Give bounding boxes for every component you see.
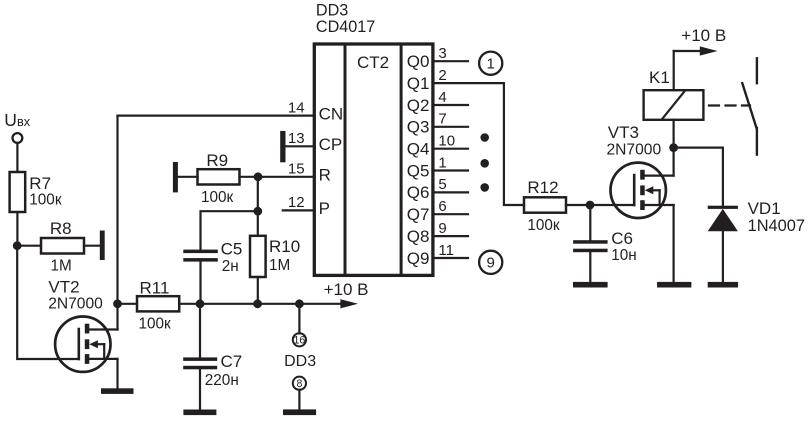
- node D junction R12/C6/VT3 gate: [586, 201, 595, 210]
- svg-text:VT3: VT3: [608, 123, 639, 142]
- wire VT3 source to ground: [672, 205, 674, 282]
- wire pin16 drop: [298, 304, 300, 334]
- node Uвх input terminal: [13, 133, 23, 143]
- svg-text:6: 6: [438, 198, 446, 215]
- svg-text:R12: R12: [527, 178, 558, 197]
- resistor R10: [250, 236, 266, 277]
- svg-text:VT2: VT2: [48, 277, 79, 296]
- ground under C6: [573, 282, 608, 288]
- resistor R11: [137, 296, 179, 311]
- svg-text:CN: CN: [319, 105, 344, 124]
- svg-text:1М: 1М: [269, 257, 290, 274]
- capacitor C5: [183, 250, 218, 254]
- svg-text:7: 7: [438, 111, 446, 128]
- svg-text:1М: 1М: [51, 258, 72, 275]
- svg-text:Uвх: Uвх: [4, 110, 30, 130]
- svg-text:C6: C6: [611, 229, 633, 248]
- wire node A down to VT2 gate: [17, 246, 79, 359]
- svg-text:Q6: Q6: [407, 183, 430, 202]
- relay K1 coil: [644, 90, 704, 120]
- resistor R8: [41, 238, 84, 254]
- svg-text:Q8: Q8: [407, 227, 430, 246]
- wire node D to VT3 gate: [590, 204, 634, 206]
- ground under VT2: [101, 388, 134, 394]
- svg-text:+10 В: +10 В: [681, 26, 726, 45]
- wire R10 to rail: [257, 277, 259, 304]
- node C junction C5/R10: [253, 207, 262, 216]
- wire node C to R10: [257, 211, 259, 236]
- node C5/C7 rail junction: [196, 299, 205, 308]
- wire Q5 stub pin 1: [434, 169, 468, 171]
- wire node B to IC pin 15: [258, 176, 313, 178]
- node A junction R7/R8/gate: [13, 241, 22, 250]
- wire R8 to stub bar: [84, 245, 100, 247]
- svg-text:R7: R7: [29, 174, 51, 193]
- svg-text:2н: 2н: [222, 258, 239, 275]
- svg-text:CT2: CT2: [357, 53, 389, 72]
- wire rail to R10 node: [200, 303, 258, 305]
- terminator bar at pin 13: [280, 131, 285, 162]
- svg-text:100к: 100к: [29, 191, 62, 208]
- wire pin 12 P stub: [283, 209, 313, 211]
- wire Q7 stub pin 6: [434, 213, 468, 215]
- wire junction to R11: [118, 303, 138, 305]
- node drain/R11 junction: [113, 299, 122, 308]
- +10 V supply arrow (left): [299, 303, 342, 305]
- ground under VD1: [708, 282, 738, 288]
- wire rail to +10V node: [258, 303, 300, 305]
- ground under VT3: [657, 282, 691, 288]
- wire Q0 stub pin 3: [434, 60, 468, 62]
- ground under C7: [183, 410, 216, 416]
- wire node A to R8: [17, 245, 41, 247]
- wire pin8 to ground: [298, 390, 300, 410]
- svg-text:R10: R10: [269, 237, 300, 256]
- wire node to VD1: [674, 148, 723, 206]
- pin 16 circle: [293, 333, 306, 346]
- wire Q9 stub pin 11: [434, 257, 468, 259]
- svg-text:Q7: Q7: [407, 205, 430, 224]
- wire Q2 stub pin 4: [434, 104, 468, 106]
- transistor VT2 2N7000: [55, 317, 117, 372]
- node R10 bottom junction: [253, 299, 262, 308]
- continuation dots: [480, 133, 489, 142]
- wire Q4 stub pin 10: [434, 148, 468, 150]
- svg-text:100к: 100к: [527, 217, 560, 234]
- wire R7 to node A: [16, 212, 18, 246]
- resistor R12: [524, 197, 566, 212]
- svg-text:10н: 10н: [611, 247, 636, 264]
- svg-text:11: 11: [438, 242, 454, 259]
- svg-text:2N7000: 2N7000: [48, 296, 103, 313]
- wire Q3 stub pin 7: [434, 126, 468, 128]
- IC U-DD3 CD4017 counter box: [314, 44, 433, 275]
- svg-text:1: 1: [438, 154, 446, 171]
- +10 V supply arrow (right): [674, 50, 701, 52]
- node output circle 1: [479, 52, 502, 75]
- terminator bar at R8: [100, 231, 105, 261]
- svg-text:C5: C5: [221, 239, 243, 258]
- svg-text:Q4: Q4: [407, 140, 430, 159]
- svg-text:1N4007: 1N4007: [748, 217, 805, 235]
- svg-text:Q0: Q0: [407, 52, 430, 71]
- svg-text:P: P: [319, 199, 330, 218]
- node relay/diode junction: [669, 143, 678, 152]
- svg-text:Q9: Q9: [407, 249, 430, 268]
- svg-text:Q5: Q5: [407, 161, 430, 180]
- node +10V / pin16 junction: [295, 299, 304, 308]
- wire node to relay K1: [672, 120, 674, 148]
- wire node C to C5: [201, 211, 258, 250]
- svg-text:14: 14: [288, 99, 305, 116]
- dashed link relay to contact: [705, 104, 751, 106]
- wire C5 to rail: [199, 261, 201, 303]
- svg-text:R11: R11: [140, 279, 170, 298]
- svg-text:Q3: Q3: [407, 118, 430, 137]
- pin 8 circle: [293, 377, 306, 390]
- svg-text:2N7000: 2N7000: [607, 141, 662, 158]
- wire R9 to node B: [240, 176, 259, 178]
- svg-text:100к: 100к: [201, 189, 234, 206]
- svg-text:Q1: Q1: [407, 74, 430, 93]
- svg-text:DD3: DD3: [284, 353, 316, 370]
- wire Q6 stub pin 5: [434, 191, 468, 193]
- svg-text:CD4017: CD4017: [316, 18, 375, 36]
- wire Q1 pin 2 to R12: [434, 83, 524, 205]
- ground under pin 8: [283, 409, 316, 415]
- capacitor C6: [589, 205, 591, 241]
- svg-text:R: R: [319, 165, 331, 184]
- wire pin 14 CN: [118, 114, 314, 116]
- resistor R7: [10, 172, 26, 212]
- diode VD1 1N4007: [708, 206, 738, 209]
- svg-text:VD1: VD1: [748, 199, 781, 218]
- wire bar to R9: [178, 176, 198, 178]
- svg-text:R9: R9: [206, 151, 228, 170]
- resistor R9: [198, 169, 240, 184]
- svg-text:4: 4: [438, 89, 446, 106]
- svg-text:3: 3: [438, 45, 446, 62]
- wire R12 to node D: [566, 204, 590, 206]
- wire R11 to C5/C7 node: [179, 303, 200, 305]
- relay contact switch: [756, 58, 758, 83]
- transistor VT3 2N7000: [611, 163, 674, 218]
- svg-text:10: 10: [438, 133, 455, 150]
- svg-text:15: 15: [288, 161, 305, 178]
- wire VT2 drain up to pin 14 line: [116, 116, 118, 330]
- wire Uвх to R7: [16, 143, 18, 172]
- wire node B down to node C: [257, 177, 259, 211]
- wire Q8 stub pin 9: [434, 235, 468, 237]
- svg-text:220н: 220н: [205, 372, 239, 389]
- svg-text:16: 16: [294, 335, 306, 347]
- wire VT2 source down: [116, 359, 118, 389]
- svg-text:9: 9: [487, 255, 495, 272]
- svg-text:DD3: DD3: [316, 1, 348, 19]
- svg-text:9: 9: [438, 220, 446, 237]
- svg-text:R8: R8: [50, 219, 72, 238]
- terminator bar at R9: [173, 162, 178, 192]
- svg-text:K1: K1: [649, 68, 670, 87]
- svg-text:C7: C7: [221, 352, 243, 371]
- svg-text:CP: CP: [319, 135, 343, 154]
- svg-text:1: 1: [487, 56, 495, 73]
- wire VT3 drain to relay node: [672, 148, 674, 176]
- svg-text:8: 8: [296, 378, 302, 390]
- svg-text:13: 13: [288, 130, 305, 147]
- capacitor C7: [199, 304, 201, 358]
- svg-text:100к: 100к: [139, 315, 172, 332]
- svg-text:2: 2: [438, 67, 446, 84]
- svg-text:Q2: Q2: [407, 96, 430, 115]
- node B junction R9/R10: [254, 172, 263, 181]
- wire pin 13 CP stub: [286, 145, 314, 147]
- svg-text:+10 В: +10 В: [324, 280, 369, 299]
- svg-text:5: 5: [438, 176, 446, 193]
- wire relay to +10V arrow: [673, 51, 675, 90]
- svg-text:12: 12: [288, 194, 305, 211]
- node output circle 9: [479, 251, 502, 274]
